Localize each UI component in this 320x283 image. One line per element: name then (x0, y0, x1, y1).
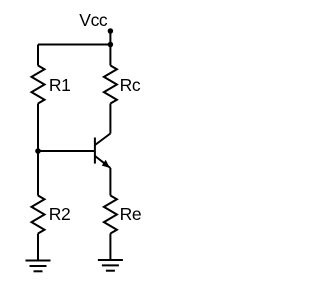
node Vcc terminal dot (108, 28, 114, 34)
node junction dot (Vcc rail) (108, 42, 114, 48)
wire base (node B to Q1) (38, 150, 95, 152)
resistor Re (104, 196, 117, 234)
resistor Rc (104, 66, 117, 104)
ground GND2 (right) (98, 260, 123, 271)
svg-text:R1: R1 (49, 75, 71, 95)
resistor R1 (32, 66, 45, 104)
wire Rc to collector (109, 104, 111, 134)
transistor Q1 emitter arrow (102, 160, 110, 168)
wire Vcc stub (109, 31, 111, 45)
transistor Q1 emitter lead (95, 156, 110, 168)
svg-text:Rc: Rc (120, 75, 141, 95)
svg-text:Re: Re (120, 204, 142, 224)
wire Vcc rail to Rc (109, 45, 111, 66)
svg-text:Vcc: Vcc (79, 10, 108, 30)
transistor Q1 base bar (94, 138, 96, 164)
wire R1 to node B and R2 (37, 104, 39, 196)
transistor Q1 collector lead (95, 134, 110, 146)
wire emitter to Re (109, 168, 111, 196)
wire R2 to ground (37, 234, 39, 260)
wire top rail (38, 44, 110, 46)
ground GND1 (left) (26, 261, 51, 272)
svg-text:R2: R2 (49, 204, 71, 224)
node B junction dot (35, 148, 41, 154)
wire Re to ground (109, 234, 111, 260)
wire left top (Vcc rail to R1) (37, 45, 39, 66)
resistor R2 (32, 196, 45, 234)
